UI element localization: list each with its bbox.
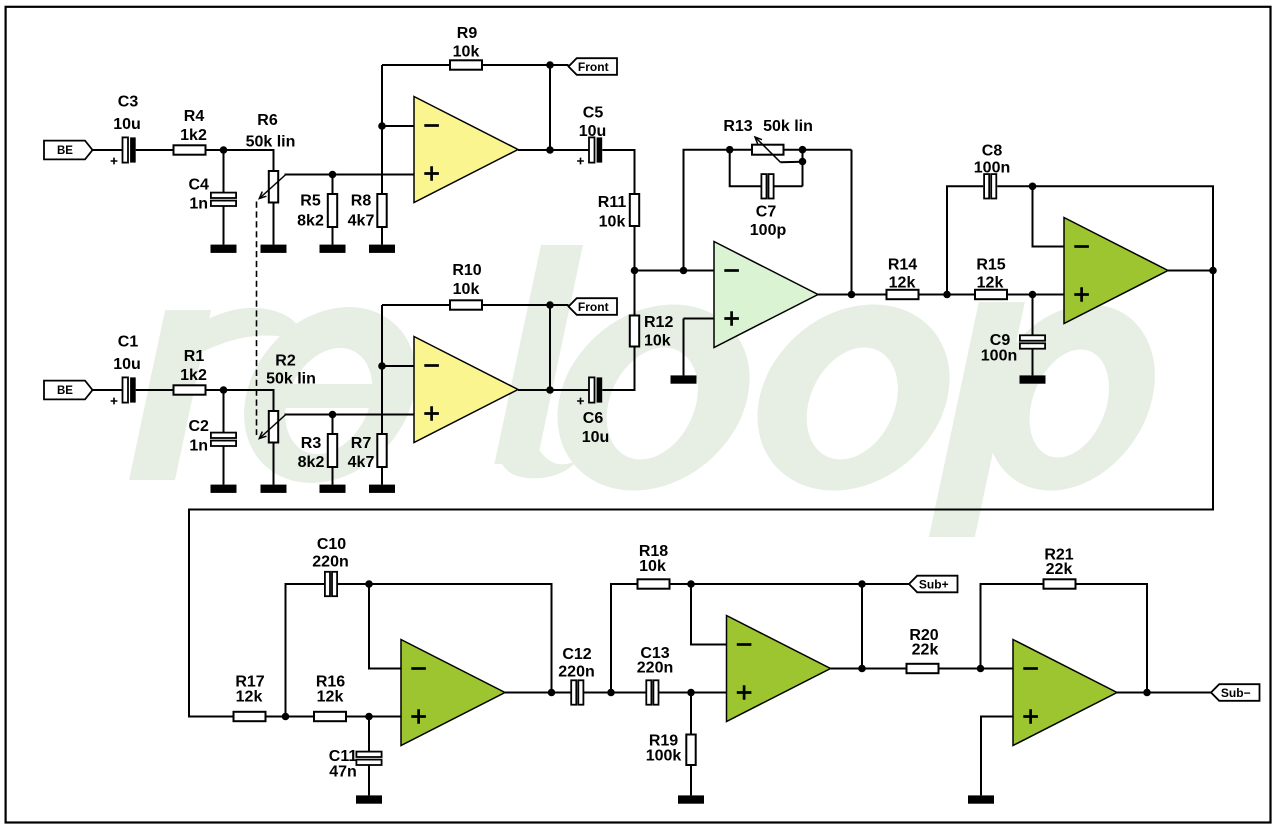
label R16 12k bbox=[316, 674, 345, 706]
wire bbox=[223, 150, 225, 193]
label C9 100n bbox=[981, 332, 1017, 365]
node bbox=[548, 689, 556, 697]
wire bbox=[206, 390, 274, 411]
label R11 10k bbox=[598, 194, 627, 231]
label R15 12k bbox=[976, 257, 1005, 292]
svg-text:22k: 22k bbox=[1046, 561, 1073, 578]
resistor R17 bbox=[234, 712, 266, 721]
net label BE (channel 2 input) bbox=[44, 381, 93, 400]
label R8 4k7 bbox=[348, 193, 375, 230]
svg-text:100n: 100n bbox=[974, 160, 1010, 177]
wire bbox=[981, 584, 1044, 669]
wire bbox=[332, 467, 334, 485]
wire bbox=[1033, 186, 1065, 246]
svg-text:12k: 12k bbox=[977, 275, 1004, 292]
capacitor C9 bbox=[1020, 335, 1045, 348]
label R3 8k2 bbox=[298, 435, 325, 471]
wire bbox=[861, 584, 863, 669]
resistor R20 bbox=[907, 664, 939, 673]
capacitor C7 bbox=[761, 174, 773, 198]
svg-text:C2: C2 bbox=[188, 418, 209, 435]
node bbox=[858, 665, 866, 673]
node bbox=[220, 386, 228, 394]
label R5 8k2 bbox=[297, 193, 324, 230]
svg-text:C11: C11 bbox=[329, 748, 358, 765]
resistor R1 bbox=[174, 385, 206, 394]
svg-text:C3: C3 bbox=[118, 94, 139, 111]
wire bbox=[332, 415, 334, 435]
resistor R18 bbox=[638, 579, 670, 588]
wire bbox=[482, 64, 569, 66]
wire bbox=[382, 125, 414, 127]
wire bbox=[549, 65, 551, 150]
op-amp U3 (mixer) bbox=[714, 242, 818, 348]
resistor R14 bbox=[887, 290, 919, 299]
net label BE (channel 1 input) bbox=[44, 141, 93, 160]
wire bbox=[381, 305, 383, 434]
wire bbox=[774, 185, 803, 187]
net label Front (channel 1 output) bbox=[569, 58, 618, 75]
label C3 10u bbox=[113, 94, 141, 134]
label C6 10u bbox=[582, 410, 610, 446]
svg-text:R3: R3 bbox=[301, 435, 322, 452]
wire bbox=[223, 390, 225, 433]
svg-text:R2: R2 bbox=[275, 353, 296, 370]
svg-text:10k: 10k bbox=[453, 44, 480, 61]
capacitor C13 bbox=[646, 680, 658, 704]
svg-text:100k: 100k bbox=[646, 748, 682, 765]
svg-text:10u: 10u bbox=[582, 429, 610, 446]
op-amp U7 (sub inverter) bbox=[1013, 640, 1117, 746]
wire bbox=[691, 584, 727, 645]
wire bbox=[518, 389, 589, 391]
gang line R6-R2 (dashed) bbox=[256, 202, 258, 436]
wire bbox=[189, 271, 1213, 717]
svg-text:C7: C7 bbox=[756, 204, 777, 221]
svg-text:R1: R1 bbox=[184, 348, 205, 365]
ground bbox=[671, 375, 697, 383]
svg-text:C12: C12 bbox=[562, 646, 591, 663]
label R14 12k bbox=[888, 257, 917, 292]
node bbox=[365, 580, 373, 588]
resistor R11 bbox=[630, 194, 639, 226]
wire bbox=[136, 149, 174, 151]
svg-text:4k7: 4k7 bbox=[348, 454, 375, 471]
node bbox=[1029, 291, 1037, 299]
svg-text:R6: R6 bbox=[257, 112, 278, 129]
wire bbox=[381, 65, 383, 194]
svg-text:R13: R13 bbox=[723, 118, 752, 135]
wire bbox=[337, 584, 551, 693]
wire bbox=[730, 149, 752, 151]
resistor R19 bbox=[686, 735, 695, 766]
wire bbox=[381, 467, 383, 485]
label C4 1n bbox=[188, 177, 209, 213]
watermark reloop bbox=[129, 245, 1173, 537]
svg-text:C8: C8 bbox=[982, 143, 1003, 160]
wire bbox=[206, 150, 274, 171]
label R13 50k lin bbox=[723, 118, 813, 135]
svg-text:10k: 10k bbox=[644, 333, 671, 350]
capacitor C12 bbox=[571, 680, 583, 704]
resistor R12 bbox=[630, 316, 639, 347]
wire bbox=[684, 150, 730, 271]
wire bbox=[266, 716, 315, 718]
op-amp U4 (subsonic filter 1) bbox=[1064, 218, 1168, 324]
svg-text:R12: R12 bbox=[644, 314, 673, 331]
potentiometer R6 bbox=[259, 171, 286, 203]
ground bbox=[968, 795, 994, 803]
svg-text:10k: 10k bbox=[453, 281, 480, 298]
svg-text:12k: 12k bbox=[889, 275, 916, 292]
wire bbox=[802, 150, 804, 187]
capacitor C4 bbox=[211, 193, 236, 206]
wire bbox=[285, 414, 415, 416]
svg-text:R7: R7 bbox=[351, 435, 372, 452]
wire bbox=[346, 716, 401, 718]
node bbox=[365, 713, 373, 721]
net label Sub- (output) bbox=[1211, 684, 1260, 701]
svg-text:12k: 12k bbox=[236, 689, 263, 706]
svg-text:C6: C6 bbox=[583, 410, 604, 427]
wire bbox=[549, 305, 551, 390]
label R19 100k bbox=[646, 733, 682, 765]
wire bbox=[781, 161, 803, 164]
capacitor C11 bbox=[356, 752, 381, 765]
wire bbox=[659, 692, 727, 694]
node bbox=[329, 411, 337, 419]
svg-text:Front: Front bbox=[578, 60, 609, 74]
svg-text:1k2: 1k2 bbox=[180, 367, 207, 384]
svg-text:C5: C5 bbox=[583, 105, 604, 122]
wire bbox=[919, 294, 976, 296]
svg-text:100p: 100p bbox=[750, 222, 787, 239]
wire bbox=[602, 150, 634, 194]
wire bbox=[831, 668, 907, 670]
svg-text:C1: C1 bbox=[118, 334, 139, 351]
wire bbox=[1168, 270, 1213, 272]
svg-text:R8: R8 bbox=[351, 193, 372, 210]
wire bbox=[482, 304, 569, 306]
wire bbox=[730, 150, 762, 187]
capacitor C2 bbox=[211, 433, 236, 446]
resistor R8 bbox=[377, 194, 386, 227]
resistor R9 bbox=[450, 60, 482, 69]
svg-text:R4: R4 bbox=[184, 108, 205, 125]
op-amp U5 (subsonic filter 2) bbox=[401, 640, 505, 746]
node bbox=[546, 146, 554, 154]
node bbox=[680, 267, 688, 275]
node bbox=[546, 386, 554, 394]
svg-text:1k2: 1k2 bbox=[180, 127, 207, 144]
resistor R3 bbox=[328, 434, 337, 467]
node bbox=[1029, 183, 1037, 191]
node bbox=[1143, 689, 1151, 697]
label R18 10k bbox=[639, 543, 668, 575]
wire bbox=[382, 304, 450, 306]
label C10 220n bbox=[312, 536, 348, 571]
svg-text:47n: 47n bbox=[329, 764, 357, 781]
ground bbox=[261, 245, 287, 253]
ground bbox=[356, 795, 382, 803]
wire bbox=[690, 765, 692, 795]
node bbox=[546, 61, 554, 69]
resistor R10 bbox=[450, 300, 482, 309]
ground bbox=[678, 795, 704, 803]
wire bbox=[981, 717, 1013, 796]
wire bbox=[273, 203, 275, 245]
ground bbox=[261, 485, 287, 493]
ground bbox=[211, 245, 237, 253]
capacitor C5 (polarized) bbox=[577, 137, 602, 164]
wire bbox=[381, 227, 383, 245]
svg-text:R10: R10 bbox=[452, 262, 481, 279]
svg-text:10k: 10k bbox=[599, 214, 626, 231]
resistor R7 bbox=[377, 434, 386, 467]
resistor R21 bbox=[1044, 579, 1076, 588]
node bbox=[220, 146, 228, 154]
label C7 100p bbox=[750, 204, 787, 240]
svg-text:BE: BE bbox=[57, 145, 73, 157]
label R6 50k lin bbox=[246, 112, 296, 151]
svg-text:50k lin: 50k lin bbox=[266, 371, 316, 388]
capacitor C10 bbox=[325, 572, 337, 596]
wire bbox=[851, 150, 853, 295]
node bbox=[943, 291, 951, 299]
svg-text:Sub+: Sub+ bbox=[919, 577, 949, 591]
svg-text:220n: 220n bbox=[312, 554, 348, 571]
resistor R5 bbox=[328, 194, 337, 227]
wire bbox=[684, 318, 715, 320]
node bbox=[799, 158, 807, 166]
label C13 220n bbox=[637, 645, 673, 677]
node bbox=[977, 665, 985, 673]
label R20 22k bbox=[909, 627, 938, 659]
node bbox=[378, 122, 386, 130]
svg-text:R5: R5 bbox=[300, 193, 321, 210]
svg-text:C4: C4 bbox=[188, 177, 209, 194]
wire bbox=[1076, 584, 1148, 693]
svg-text:22k: 22k bbox=[912, 642, 939, 659]
node bbox=[799, 146, 807, 154]
wire bbox=[368, 717, 370, 753]
svg-text:R15: R15 bbox=[976, 257, 1005, 274]
svg-text:1n: 1n bbox=[189, 438, 208, 455]
wire bbox=[683, 319, 685, 376]
svg-text:220n: 220n bbox=[558, 664, 594, 681]
wire bbox=[285, 174, 415, 176]
wire bbox=[818, 294, 887, 296]
wire bbox=[93, 389, 123, 391]
label R9 10k bbox=[453, 25, 480, 61]
op-amp U2 (channel 2) bbox=[414, 337, 518, 443]
node bbox=[848, 291, 856, 299]
svg-text:Sub−: Sub− bbox=[1221, 686, 1251, 700]
svg-text:100n: 100n bbox=[981, 348, 1017, 365]
node bbox=[378, 362, 386, 370]
capacitor C6 (polarized) bbox=[577, 377, 602, 404]
label C1 10u bbox=[113, 334, 141, 374]
label R10 10k bbox=[452, 262, 481, 298]
label R7 4k7 bbox=[348, 435, 375, 471]
svg-text:10u: 10u bbox=[113, 356, 141, 373]
wire bbox=[332, 227, 334, 245]
svg-text:R9: R9 bbox=[457, 25, 478, 42]
node bbox=[282, 713, 290, 721]
svg-text:R14: R14 bbox=[888, 257, 917, 274]
wire bbox=[1032, 295, 1034, 337]
svg-text:10k: 10k bbox=[639, 558, 666, 575]
wire bbox=[635, 270, 715, 272]
svg-text:C10: C10 bbox=[317, 536, 346, 553]
wire bbox=[611, 584, 638, 693]
svg-text:50k lin: 50k lin bbox=[246, 134, 296, 151]
wire bbox=[382, 365, 414, 367]
svg-text:8k2: 8k2 bbox=[297, 213, 324, 230]
label C12 220n bbox=[558, 646, 594, 681]
wire bbox=[332, 175, 334, 195]
wire bbox=[997, 186, 1213, 270]
wire bbox=[947, 186, 983, 294]
label C5 10u bbox=[579, 105, 607, 141]
label R17 12k bbox=[235, 674, 264, 706]
wire bbox=[223, 205, 225, 244]
wire bbox=[505, 692, 571, 694]
capacitor C8 bbox=[984, 174, 996, 198]
label R2 50k lin bbox=[266, 353, 316, 388]
wire bbox=[518, 149, 589, 151]
net label Front (channel 2 output) bbox=[569, 298, 618, 315]
node bbox=[1209, 267, 1217, 275]
ground bbox=[320, 485, 346, 493]
node bbox=[726, 146, 734, 154]
wire bbox=[223, 445, 225, 484]
wire bbox=[93, 149, 123, 151]
ground bbox=[369, 485, 395, 493]
svg-text:10u: 10u bbox=[579, 123, 607, 140]
label R12 10k bbox=[644, 314, 673, 350]
svg-text:8k2: 8k2 bbox=[298, 454, 325, 471]
node bbox=[858, 580, 866, 588]
resistor R4 bbox=[174, 145, 206, 154]
label R1 1k2 bbox=[180, 348, 207, 384]
label R21 22k bbox=[1044, 547, 1073, 579]
capacitor C1 (polarized) bbox=[111, 377, 136, 404]
resistor R16 bbox=[314, 712, 346, 721]
wire bbox=[690, 693, 692, 735]
label R4 1k2 bbox=[180, 108, 207, 144]
wire bbox=[368, 764, 370, 795]
capacitor C3 (polarized) bbox=[111, 137, 136, 164]
node bbox=[687, 689, 695, 697]
ground bbox=[369, 245, 395, 253]
wire bbox=[286, 584, 325, 717]
svg-text:R11: R11 bbox=[598, 194, 627, 211]
wire bbox=[583, 692, 646, 694]
op-amp U1 (channel 1) bbox=[414, 97, 518, 203]
wire bbox=[136, 389, 174, 391]
svg-text:50k lin: 50k lin bbox=[763, 118, 813, 135]
label C11 47n bbox=[329, 748, 358, 781]
node bbox=[687, 580, 695, 588]
ground bbox=[320, 245, 346, 253]
node bbox=[329, 171, 337, 179]
svg-text:Front: Front bbox=[578, 300, 609, 314]
svg-text:4k7: 4k7 bbox=[348, 213, 375, 230]
svg-text:220n: 220n bbox=[637, 660, 673, 677]
ground bbox=[1020, 375, 1046, 383]
wire bbox=[369, 584, 401, 669]
wire bbox=[670, 583, 910, 585]
net label Sub+ (output) bbox=[909, 576, 958, 593]
wire bbox=[1117, 692, 1211, 694]
label C8 100n bbox=[974, 143, 1010, 177]
svg-text:10u: 10u bbox=[113, 116, 141, 133]
node bbox=[546, 301, 554, 309]
potentiometer R2 bbox=[259, 411, 286, 443]
wire bbox=[602, 347, 634, 391]
wire bbox=[1007, 294, 1064, 296]
wire bbox=[382, 64, 450, 66]
ground bbox=[211, 485, 237, 493]
wire bbox=[634, 226, 636, 316]
wire bbox=[273, 443, 275, 485]
op-amp U6 (sub mixer) bbox=[727, 616, 831, 722]
node bbox=[631, 267, 639, 275]
resistor R15 bbox=[975, 290, 1007, 299]
label C2 1n bbox=[188, 418, 209, 455]
wire bbox=[1032, 348, 1034, 375]
svg-text:1n: 1n bbox=[189, 196, 208, 213]
svg-text:BE: BE bbox=[57, 385, 73, 397]
wire bbox=[784, 149, 852, 151]
wire bbox=[939, 668, 1014, 670]
svg-text:12k: 12k bbox=[317, 689, 344, 706]
node bbox=[607, 689, 615, 697]
svg-text:C9: C9 bbox=[990, 332, 1011, 349]
potentiometer R13 bbox=[752, 137, 784, 162]
